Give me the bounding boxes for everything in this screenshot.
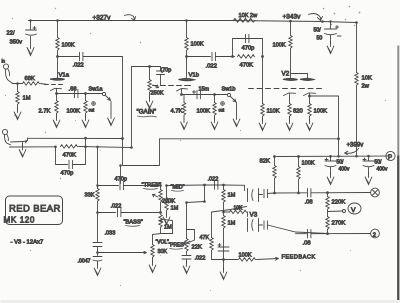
underline squiggle for GAIN [138, 116, 157, 117]
resistor 68K grid stopper [23, 82, 40, 85]
svg-text:2: 2 [373, 232, 376, 238]
potentiometer MID 1M [166, 186, 168, 198]
svg-text:400v: 400v [377, 167, 388, 173]
node: V1b plate node [185, 55, 188, 58]
wire: bass cap to bass pot [121, 212, 161, 214]
ground for 1M [17, 105, 19, 110]
capacitor 470p (across 470K) [246, 34, 249, 42]
ground stub at jack2 [22, 142, 24, 147]
node: 470p loop left [54, 146, 57, 149]
resistor 4.7K cathode [183, 95, 185, 103]
input jack 2 [2, 129, 10, 144]
resistor 1M PI grid [223, 185, 225, 190]
wire: cap to 470K [216, 56, 235, 58]
node: treble branch tap [119, 164, 122, 167]
ground for first 50/400 [330, 168, 332, 175]
capacitor C 22/350v with polarity [26, 21, 37, 36]
scan specks top right [323, 6, 361, 27]
svg-text:100K: 100K [62, 43, 75, 49]
svg-text:250K: 250K [151, 91, 164, 97]
svg-text:out: out [219, 108, 226, 113]
input jack 1 [3, 64, 12, 84]
ground for GAIN pot [149, 93, 151, 99]
svg-text:(70p: (70p [161, 68, 172, 74]
resistor 100K V2b cathode [309, 96, 311, 104]
svg-text:82K: 82K [260, 159, 271, 165]
resistor 10K PI bias link [224, 211, 230, 213]
resistor 470K input mix [61, 145, 78, 148]
node: gain pot tap [148, 65, 151, 68]
node: left node of 470K [231, 55, 234, 58]
scanner edge line right [397, 46, 399, 156]
svg-text:10K 2w: 10K 2w [239, 13, 259, 19]
svg-text:470K: 470K [63, 153, 77, 159]
node: V2 grid node [261, 55, 264, 58]
svg-text:22K: 22K [192, 245, 202, 251]
node: bass pot top [159, 211, 162, 214]
terminal V [348, 203, 361, 214]
ground for 100K [85, 114, 87, 118]
svg-text:30K: 30K [158, 249, 168, 255]
node: divider top [326, 191, 329, 194]
node: presence tee [203, 200, 206, 203]
svg-text:2w: 2w [362, 84, 370, 90]
capacitor coupling lower .02 [264, 221, 267, 229]
node: long vertical meets grid bus [121, 137, 124, 140]
svg-text:“BASS”: “BASS” [124, 220, 143, 226]
label out (switch) [89, 102, 96, 113]
ground for MID pot [166, 211, 168, 215]
switch Sw1a [102, 92, 111, 113]
wire: cathode follower output [310, 96, 339, 157]
node: vol wiper at slope line [96, 251, 99, 254]
node: junctions on PI B+ line [273, 155, 370, 158]
capacitor .022 bass [118, 208, 121, 216]
wire: jack2 lower bus [10, 146, 56, 148]
svg-text:100K: 100K [197, 109, 211, 115]
svg-text:+343v: +343v [283, 14, 302, 21]
capacitor .033 on slope line [93, 213, 102, 253]
ground for 100K cathode [309, 117, 311, 121]
node: junction dots on supply rail [29, 19, 358, 24]
potentiometer TREBLE 220K [160, 186, 162, 190]
resistor 100K (V1a plate load) [57, 21, 59, 38]
svg-text:50/: 50/ [337, 160, 345, 166]
capacitor 15mfd bypass [193, 90, 201, 98]
svg-text:22/: 22/ [7, 31, 15, 37]
capacitor 470p treble [120, 181, 123, 189]
scanner edge shade bottom [1, 300, 400, 303]
node: treble pot top [159, 184, 162, 187]
svg-text:110K: 110K [267, 109, 280, 115]
ground for Sw1b [233, 115, 240, 127]
resistor 47K tail [210, 238, 213, 251]
svg-text:1M: 1M [228, 221, 236, 227]
svg-text:.0047: .0047 [78, 259, 91, 265]
svg-text:470p: 470p [242, 46, 255, 52]
wire: lower plate out [268, 225, 328, 234]
wire: cathode bus [57, 93, 103, 95]
wire: wiper to V1b grid (dashed) [153, 85, 191, 87]
svg-text:V3: V3 [250, 212, 258, 219]
ground for presence [186, 259, 188, 264]
resistor 2.7K cathode [56, 94, 58, 101]
resistor 110K grid leak [261, 104, 264, 117]
svg-text:350v: 350v [10, 40, 23, 46]
svg-text:V1b: V1b [189, 73, 200, 79]
wire: +327v pointer arrow [125, 15, 136, 21]
svg-text:“PRES”: “PRES” [169, 243, 186, 249]
electrolytic cap PI tail [218, 244, 229, 252]
wire: tone stack feed vertical [97, 148, 99, 186]
switch Sw1b [227, 93, 236, 114]
wire: +399v pointer arrow [345, 149, 359, 155]
svg-text:10K: 10K [234, 206, 244, 212]
node: mid tap [165, 184, 168, 187]
svg-text:470K: 470K [240, 63, 254, 69]
node: 82K plate node [273, 192, 276, 195]
node: grid node [16, 82, 19, 85]
wire: PI output upper [275, 192, 371, 195]
ground for 4.7K [183, 116, 185, 120]
node: presence pot feed [185, 201, 188, 204]
resistor 100K bypass V1b [214, 95, 216, 103]
wire: treble cap wire [98, 185, 119, 187]
svg-text:“TREB”: “TREB” [142, 183, 162, 189]
svg-text:1M: 1M [228, 193, 236, 199]
wire: link to V3 lower grid [247, 212, 249, 217]
svg-text:- V3 - 12Ax7: - V3 - 12Ax7 [11, 240, 44, 246]
wire: bass pot to volume pot [153, 234, 161, 245]
svg-text:1M: 1M [164, 225, 172, 231]
capacitor output .0047 [93, 253, 102, 262]
wire: tee to presence pot [187, 202, 205, 203]
node: 470p at channel bus [84, 145, 87, 148]
cathode V2b [304, 93, 316, 96]
capacitor coupling upper .02 [264, 189, 267, 197]
svg-text:P: P [388, 154, 392, 161]
wiper arrow mid pot [168, 201, 173, 204]
title box RED BEAR [6, 196, 63, 225]
label out (switch b) [219, 102, 226, 113]
wire: V1b cathode bus [182, 94, 228, 96]
wiper arrow of GAIN pot [153, 85, 159, 88]
resistor 820 V2a cathode [288, 104, 291, 117]
wire: tail node bus [212, 259, 224, 261]
wiper tap wire to V terminal [328, 210, 343, 213]
ground for slope line [97, 262, 99, 266]
svg-text:RED BEAR: RED BEAR [9, 204, 61, 215]
svg-text:.022: .022 [206, 64, 217, 70]
ground for 820 [289, 117, 291, 121]
wire: treble cap branch drop [120, 166, 122, 184]
ground for 100K bypass V1b [214, 116, 216, 120]
svg-text:100K: 100K [67, 109, 81, 115]
svg-text:1M: 1M [171, 206, 179, 212]
node: signal bus at CF drop [337, 137, 340, 140]
svg-text:100K: 100K [273, 43, 286, 49]
potentiometer GAIN 250K [149, 67, 151, 80]
wire: V3 cathode to tail [212, 207, 247, 213]
resistor 10K 2W on rail [234, 19, 255, 23]
svg-text:400v: 400v [339, 167, 350, 173]
svg-text:Sw1b: Sw1b [222, 87, 236, 93]
wire: bass cap wire [98, 212, 116, 214]
svg-text:“VOL”: “VOL” [156, 240, 170, 246]
wire: treble cap to treble pot [124, 185, 161, 187]
ground for tail [223, 260, 225, 270]
svg-text:50/: 50/ [314, 28, 322, 34]
node: V2b cathode node [308, 95, 311, 98]
triode V1a [45, 57, 65, 94]
capacitor .68 bypass [75, 89, 78, 97]
node: junction at 100K bypass V1b [213, 93, 216, 96]
resistor 270K divider [327, 210, 329, 217]
svg-text:470p: 470p [115, 177, 127, 183]
svg-text:100K: 100K [302, 161, 315, 167]
wire: plate node to coupling cap [58, 56, 79, 58]
svg-text:4.7K: 4.7K [171, 109, 183, 115]
svg-text:in: in [2, 59, 6, 64]
svg-text:.022: .022 [111, 204, 122, 210]
svg-text:FEEDBACK: FEEDBACK [282, 255, 316, 261]
svg-text:+399v: +399v [347, 142, 365, 149]
wiper loop bass pot [161, 219, 173, 233]
resistor 100K PI plate [298, 157, 300, 167]
node: V1b cathode node [180, 93, 183, 96]
underline for TREB [144, 188, 158, 191]
svg-text:Sw1a: Sw1a [89, 87, 104, 93]
svg-text:“GAIN”: “GAIN” [137, 109, 157, 116]
svg-text:820: 820 [293, 109, 303, 115]
svg-text:100K: 100K [314, 109, 328, 115]
resistor 470K series [238, 55, 255, 58]
wiper loop presence [187, 230, 195, 244]
wire: PI output lower [296, 233, 371, 235]
svg-text:2.7K: 2.7K [39, 109, 51, 115]
wire: grid node down to 110K [262, 57, 264, 104]
node: 33K top [96, 184, 99, 187]
svg-text:100K: 100K [239, 253, 252, 259]
wire: volume wiper feed with arrow [98, 251, 147, 254]
wire: signal bus to phase inverter B+ drop [160, 138, 339, 140]
wire: upper plate out [268, 192, 275, 195]
wire: V1b plate to coupling network [187, 56, 211, 58]
wiper arrow treble pot [153, 194, 159, 197]
capacitor 50/50 filter at +343 [325, 22, 342, 37]
ground for C 22/350v [27, 37, 34, 56]
wire: +327V supply rail [29, 21, 357, 23]
resistor 100K (V2 plate) [290, 21, 292, 35]
node: bass wire at slope [96, 211, 99, 214]
dual triode V2 plates [284, 74, 314, 81]
svg-text:V: V [351, 207, 356, 214]
svg-text:.022: .022 [208, 177, 219, 183]
ground for second 50/400 [368, 168, 370, 175]
node: corner to presence drop [203, 184, 206, 187]
wire: vertical from gain wire down to input mix bus [131, 67, 133, 148]
capacitor .022 PI input [215, 181, 218, 189]
wire: jack1 to grid network [13, 83, 23, 85]
ground for 110K [262, 117, 264, 121]
node: tone feed at mix bus [96, 146, 99, 149]
svg-text:.08: .08 [303, 241, 312, 247]
capacitor .08 lower output [308, 230, 311, 238]
svg-text:270K: 270K [332, 221, 346, 227]
node: 470p at grid bus [84, 137, 87, 140]
svg-text:10K: 10K [362, 76, 372, 82]
svg-text:.022: .022 [195, 256, 206, 262]
potentiometer PRESENCE 22K [186, 203, 188, 239]
node: junction at 100K bypass [84, 92, 87, 95]
wire: V3 tail drop [211, 213, 213, 238]
svg-text:1M: 1M [23, 96, 31, 102]
ground for 2.7K [56, 114, 58, 118]
underline for MID [172, 190, 184, 193]
terminal X (output grid 1) [371, 188, 380, 197]
svg-text:.022: .022 [73, 63, 84, 69]
wire: 68K to V1a grid [41, 84, 48, 85]
svg-text:47K: 47K [200, 235, 210, 241]
ground for VOL pot [152, 258, 154, 263]
resistor 10K 2W dropping [356, 23, 358, 73]
wire: presence feed vertical [204, 185, 206, 202]
underline for BASS [126, 225, 140, 228]
terminal P [386, 151, 395, 161]
svg-text:50/: 50/ [375, 160, 383, 166]
wire: cap to long vertical [84, 57, 123, 139]
resistor 100K bypass [85, 94, 87, 101]
node: 100K plate node at upper out [297, 192, 300, 195]
svg-text:V2: V2 [282, 71, 290, 78]
capacitor 470p loop [56, 138, 86, 169]
wire: feedback lead with arrow [257, 257, 279, 260]
svg-text:MK 120: MK 120 [4, 216, 36, 225]
wire: gain pot top feed [132, 66, 161, 68]
capacitor .022 (second coupling) [212, 52, 215, 60]
svg-text:.033: .033 [105, 231, 116, 237]
node: tail node [222, 258, 225, 261]
ground for 50/50 [330, 36, 332, 44]
capacitor .022 presence [182, 252, 191, 260]
svg-text:100K: 100K [191, 42, 204, 48]
node: V1a plate node [56, 55, 59, 58]
potentiometer BASS 1M [159, 215, 162, 228]
svg-text:50: 50 [317, 36, 323, 42]
node: mix bus at long vertical [130, 146, 133, 149]
underline for PRES [170, 248, 183, 251]
resistor 1M input [17, 84, 19, 92]
resistor 220K divider [327, 193, 329, 197]
grid (dashed) V2 [249, 88, 322, 90]
svg-text:.08: .08 [305, 200, 314, 206]
resistor 1M lower grid [223, 203, 225, 216]
svg-text:68K: 68K [25, 76, 35, 82]
wire: jack2 to channel 1 bus with arrow [11, 138, 28, 143]
electrolytic 50/400v second [363, 156, 374, 167]
electrolytic 50/400v first [325, 156, 336, 166]
svg-text:33K: 33K [85, 193, 95, 199]
resistor 82K PI plate [274, 157, 276, 166]
resistor 33K slope [97, 186, 99, 189]
triode V3 upper [248, 189, 263, 202]
node: PI grid node [222, 184, 225, 187]
cathode V2a [284, 93, 296, 104]
wire: channel 1 grid bus [28, 137, 123, 139]
svg-text:V1a: V1a [59, 73, 70, 79]
svg-text:.68: .68 [69, 87, 77, 93]
terminal 2 (output grid 2) [371, 229, 380, 238]
wire: 470K to mix node [79, 147, 132, 148]
node: divider bottom [326, 232, 329, 235]
resistor 100K (V1b plate load) [186, 21, 188, 38]
svg-text:470p: 470p [61, 171, 74, 177]
svg-text:15m: 15m [199, 87, 210, 93]
triode V1b [177, 57, 195, 95]
ground for Sw1a [108, 114, 115, 126]
resistor 100K feedback [224, 259, 238, 261]
capacitor .022 coupling [80, 52, 83, 60]
wire: PI B+ line [277, 155, 389, 158]
wire: PI grid wire [167, 185, 245, 191]
triode V3 lower [248, 219, 263, 232]
wire: long vertical continues to tone feed [123, 139, 160, 166]
wire: bypass loop for 470p [233, 39, 263, 57]
wire: +343v pointer arrow [309, 14, 323, 21]
potentiometer VOLUME 30K [151, 245, 154, 258]
svg-text:+327v: +327v [93, 15, 112, 22]
svg-text:out: out [89, 108, 96, 113]
capacitor .08 upper output [308, 189, 311, 197]
svg-text:220K: 220K [332, 200, 346, 206]
capacitor bright cap 170p [157, 67, 165, 86]
node: V1a cathode node [55, 92, 58, 95]
